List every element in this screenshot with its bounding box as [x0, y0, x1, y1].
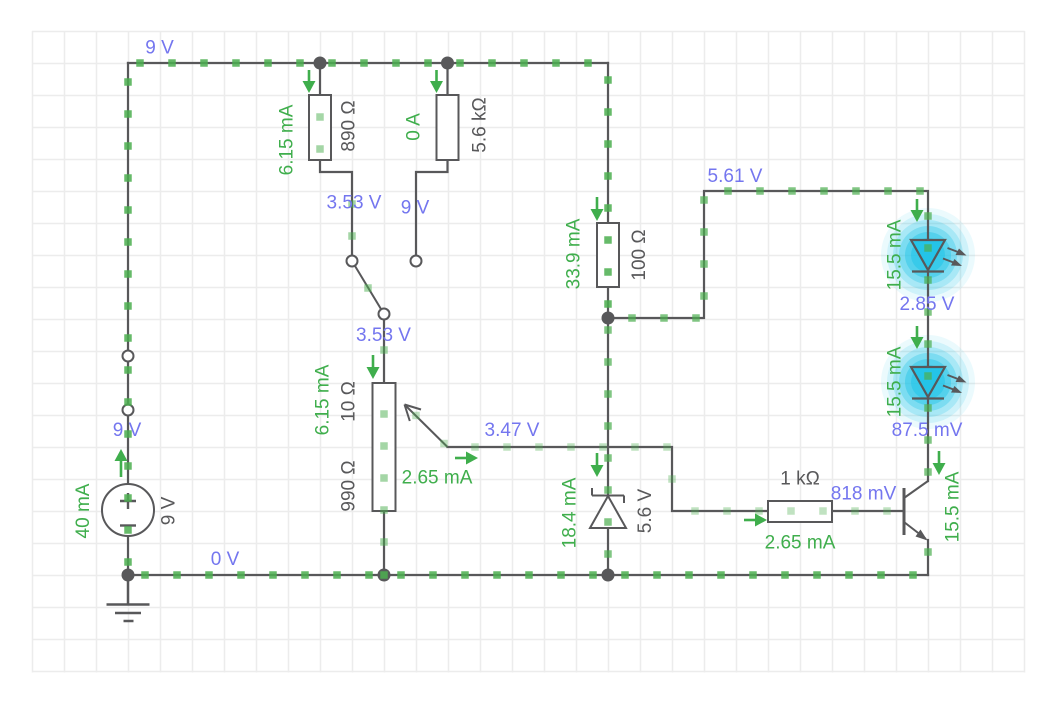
wire: 0V ground bus — [128, 574, 928, 576]
svg-text:0 V: 0 V — [211, 549, 240, 570]
wire: zener branch lower lead — [607, 528, 609, 575]
current arrow into LED D3 — [911, 326, 924, 349]
current flow dots: R4 branch — [604, 76, 612, 308]
potentiometer R3 (10/990 ohm) with wiper arrow — [373, 383, 448, 511]
switch SW1 (closed) — [123, 351, 134, 416]
svg-text:2.85 V: 2.85 V — [900, 294, 955, 315]
current arrow into R2 — [430, 70, 443, 93]
svg-text:6.15 mA: 6.15 mA — [313, 364, 334, 435]
current flow dots: R1 branch — [316, 113, 372, 292]
svg-text:3.53 V: 3.53 V — [356, 325, 411, 346]
wire: SW2 pole to potentiometer R3 — [383, 319, 385, 383]
transistor Q1 NPN — [904, 481, 928, 541]
wire: R2 5.6kohm branch to switch throw B — [416, 63, 448, 256]
current arrow into Q1 collector — [933, 451, 946, 475]
current arrow into LED D2 — [911, 199, 924, 222]
resistor R4 100 ohm — [597, 223, 619, 287]
svg-text:87.5 mV: 87.5 mV — [892, 420, 963, 441]
resistor R2 5.6 kohm — [437, 95, 459, 160]
svg-text:0 A: 0 A — [404, 113, 425, 141]
wire: LED D3 cathode to Q1 collector — [927, 398, 929, 481]
node: potentiometer / ground bus junction — [378, 569, 391, 582]
svg-text:1 kΩ: 1 kΩ — [780, 469, 820, 490]
svg-text:818 mV: 818 mV — [831, 484, 897, 505]
svg-text:5.6 V: 5.6 V — [635, 488, 656, 533]
current arrow out of battery — [115, 449, 128, 477]
wire: R4 node to LED D2 anode — [608, 191, 928, 318]
node: top bus / R2 junction — [441, 57, 454, 70]
node: R4 / zener / LED feed junction — [602, 312, 615, 325]
wire: wiper net: R3 wiper to R5 1kohm — [448, 447, 769, 511]
current arrow on wiper wire — [455, 452, 478, 465]
svg-text:2.65 mA: 2.65 mA — [402, 468, 473, 489]
svg-text:15.5 mA: 15.5 mA — [885, 219, 906, 290]
current arrow into R5 — [744, 514, 767, 527]
svg-text:3.47 V: 3.47 V — [485, 420, 540, 441]
current flow dots: node dot at potentiometer junction — [380, 571, 388, 579]
node: zener / ground bus junction — [602, 569, 615, 582]
wire: zener branch upper lead — [607, 318, 609, 495]
current flow dots: zener branch — [604, 326, 612, 558]
current flow dots: LED feed — [628, 187, 932, 556]
svg-text:15.5 mA: 15.5 mA — [943, 471, 964, 542]
wire: LED D2 cathode to LED D3 anode — [927, 271, 929, 367]
current flow dots: ground bus — [141, 571, 917, 579]
voltage source V1 9 V — [102, 484, 154, 536]
ground — [107, 575, 150, 621]
svg-text:9 V: 9 V — [145, 38, 174, 59]
resistor R1 890 ohm — [309, 95, 331, 160]
svg-text:9 V: 9 V — [401, 198, 430, 219]
svg-text:100 Ω: 100 Ω — [629, 229, 650, 280]
LED D3 glow — [881, 335, 975, 429]
svg-text:10 Ω: 10 Ω — [339, 381, 360, 422]
zener diode D1 5.6 V — [590, 488, 626, 528]
resistor R5 1 kohm — [768, 501, 832, 522]
LED D3 (lit) — [911, 367, 967, 399]
svg-text:15.5 mA: 15.5 mA — [885, 346, 906, 417]
current flow dots: battery branch — [124, 78, 132, 566]
svg-text:890 Ω: 890 Ω — [339, 100, 360, 151]
svg-text:6.15 mA: 6.15 mA — [277, 104, 298, 175]
svg-text:3.53 V: 3.53 V — [327, 193, 382, 214]
current flow dots: wiper net — [412, 412, 891, 515]
current arrow into potentiometer — [367, 355, 380, 379]
svg-text:9 V: 9 V — [113, 420, 142, 441]
node: battery / ground bus junction — [122, 569, 135, 582]
LED D2 glow — [881, 208, 975, 302]
current arrow into R4 — [591, 197, 604, 221]
svg-text:9 V: 9 V — [159, 496, 180, 525]
svg-text:2.65 mA: 2.65 mA — [765, 533, 836, 554]
current flow dots: top bus — [136, 59, 592, 67]
svg-text:5.61 V: 5.61 V — [708, 166, 763, 187]
wire: R5 1kohm to Q1 base — [832, 510, 904, 512]
wire: battery branch (top bus to ground bus, through SW1 and V1) — [127, 63, 129, 575]
switch SW2 (SPDT selector) — [347, 256, 422, 320]
svg-text:18.4 mA: 18.4 mA — [560, 477, 581, 548]
current arrow into zener — [591, 453, 604, 477]
wire: Q1 emitter to ground bus — [927, 540, 929, 575]
current flow dots: potentiometer branch — [380, 346, 388, 546]
node: top bus / R1 junction — [314, 57, 327, 70]
svg-text:33.9 mA: 33.9 mA — [564, 218, 585, 289]
wire: R1 890ohm branch to switch throw A — [320, 63, 352, 256]
wire: R4 100ohm branch — [607, 63, 609, 318]
wire: potentiometer R3 to ground bus — [383, 511, 385, 575]
wire: 9V top bus — [128, 62, 608, 64]
svg-text:5.6 kΩ: 5.6 kΩ — [470, 97, 491, 152]
svg-text:40 mA: 40 mA — [73, 483, 94, 538]
svg-text:990 Ω: 990 Ω — [339, 460, 360, 511]
LED D2 (lit) — [911, 240, 967, 272]
current arrow into R1 — [303, 70, 316, 93]
